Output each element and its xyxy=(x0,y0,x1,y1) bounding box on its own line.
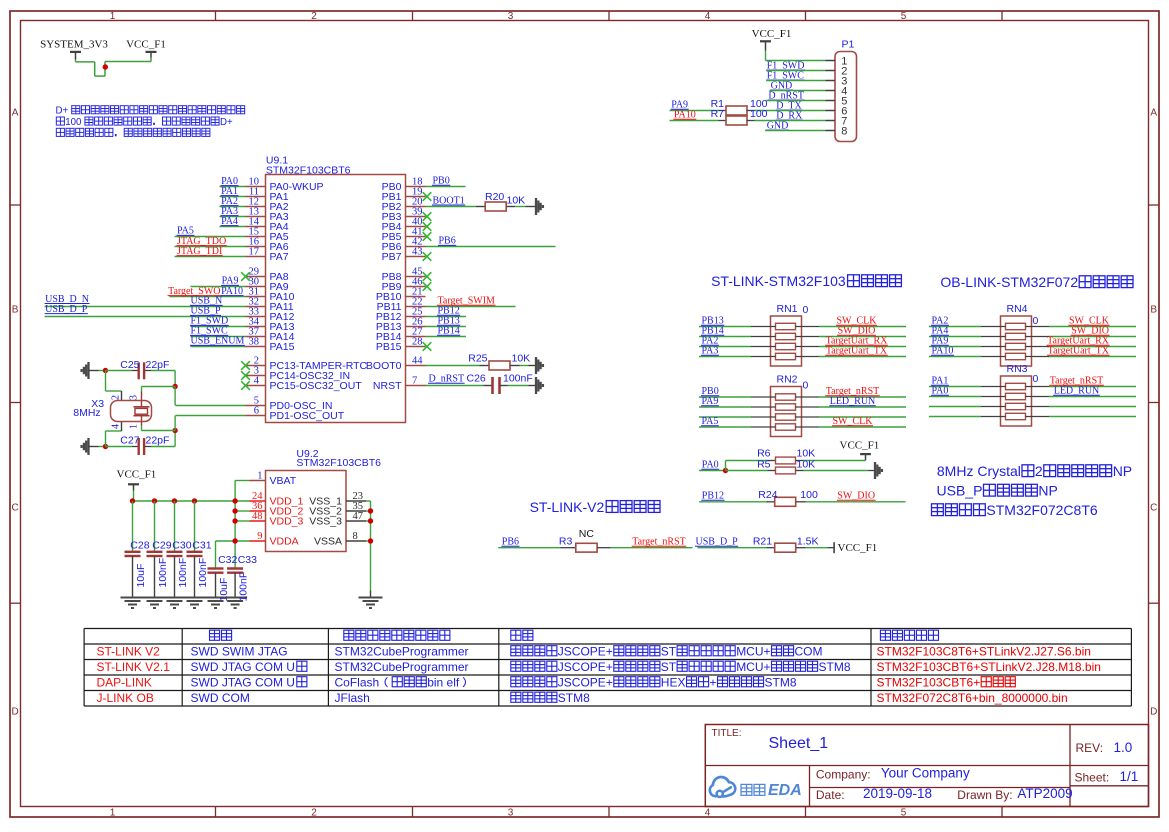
svg-text:7: 7 xyxy=(412,376,417,387)
svg-text:JFlash: JFlash xyxy=(335,691,370,705)
svg-text:C25: C25 xyxy=(120,359,139,371)
svg-text:0: 0 xyxy=(803,304,809,316)
svg-text:Your Company: Your Company xyxy=(881,766,970,781)
svg-text:+: + xyxy=(710,675,717,689)
svg-text:ST: ST xyxy=(661,660,677,674)
svg-text:3: 3 xyxy=(508,807,514,818)
svg-text:10K: 10K xyxy=(512,353,531,365)
svg-text:8: 8 xyxy=(841,126,847,138)
svg-text:4: 4 xyxy=(705,807,711,818)
svg-text:PC15-OSC32_OUT: PC15-OSC32_OUT xyxy=(270,380,363,392)
svg-text:C26: C26 xyxy=(467,373,486,385)
svg-text:C: C xyxy=(11,503,18,514)
svg-text:STM8: STM8 xyxy=(765,675,797,689)
svg-text:100nF: 100nF xyxy=(157,558,169,588)
svg-text:100: 100 xyxy=(750,108,768,120)
svg-text:100nF: 100nF xyxy=(238,572,250,602)
svg-text:1: 1 xyxy=(110,11,116,22)
svg-text:1.0: 1.0 xyxy=(1114,740,1133,755)
svg-text:3: 3 xyxy=(129,395,140,400)
svg-text:PB7: PB7 xyxy=(382,251,402,263)
svg-text:C29: C29 xyxy=(152,540,171,552)
svg-text:B: B xyxy=(12,305,19,316)
svg-text:C27: C27 xyxy=(120,435,139,447)
svg-text:8MHz Crystal: 8MHz Crystal xyxy=(937,463,1021,479)
svg-text:D+: D+ xyxy=(56,106,69,117)
svg-text:HEX: HEX xyxy=(661,675,686,689)
svg-text:STM32CubeProgrammer: STM32CubeProgrammer xyxy=(335,660,469,674)
svg-text:44: 44 xyxy=(412,356,423,367)
svg-text:STM32CubeProgrammer: STM32CubeProgrammer xyxy=(335,644,469,658)
svg-text:REV:: REV: xyxy=(1076,741,1104,755)
svg-text:D+: D+ xyxy=(220,117,233,128)
svg-text:R21: R21 xyxy=(753,536,772,548)
svg-text:NP: NP xyxy=(1113,463,1132,479)
svg-text:R25: R25 xyxy=(468,353,487,365)
svg-text:RN1: RN1 xyxy=(777,303,798,315)
svg-text:3: 3 xyxy=(508,11,514,22)
svg-text:JSCOPE+: JSCOPE+ xyxy=(558,675,613,689)
svg-text:38: 38 xyxy=(249,337,260,348)
svg-text:SWD JTAG COM U: SWD JTAG COM U xyxy=(191,675,295,689)
svg-text:10uF: 10uF xyxy=(135,564,147,588)
svg-text:0: 0 xyxy=(1033,373,1039,385)
svg-text:2: 2 xyxy=(311,807,317,818)
svg-text:NRST: NRST xyxy=(373,380,402,392)
svg-text:ST-LINK-V2: ST-LINK-V2 xyxy=(530,499,605,515)
svg-text:A: A xyxy=(12,108,19,119)
svg-text:ST-LINK-STM32F103: ST-LINK-STM32F103 xyxy=(711,273,846,289)
svg-text:C31: C31 xyxy=(192,540,211,552)
svg-text:1: 1 xyxy=(110,807,116,818)
svg-text:NP: NP xyxy=(1038,483,1057,499)
svg-text:MCU+: MCU+ xyxy=(736,644,770,658)
svg-text:100nF: 100nF xyxy=(177,558,189,588)
svg-text:STM32F103C8T6+STLinkV2.J27.S6.: STM32F103C8T6+STLinkV2.J27.S6.bin xyxy=(877,644,1091,658)
svg-text:VCC_F1: VCC_F1 xyxy=(117,468,157,480)
svg-text:A: A xyxy=(1150,108,1157,119)
svg-text:USB_P: USB_P xyxy=(937,483,983,499)
svg-text:B: B xyxy=(1150,305,1157,316)
svg-text:STM32F072C8T6: STM32F072C8T6 xyxy=(986,502,1097,518)
svg-text:EDA: EDA xyxy=(768,782,802,799)
svg-text:1: 1 xyxy=(129,424,140,429)
svg-text:SWD COM: SWD COM xyxy=(191,691,250,705)
svg-text:48: 48 xyxy=(252,511,263,522)
svg-text:2019-09-18: 2019-09-18 xyxy=(863,786,932,801)
svg-text:R20: R20 xyxy=(485,191,504,203)
svg-text:VCC_F1: VCC_F1 xyxy=(752,28,792,40)
svg-text:CoFlash: CoFlash xyxy=(335,675,380,689)
svg-text:ST: ST xyxy=(661,644,677,658)
svg-text:STM32F072C8T6+bin_8000000.bin: STM32F072C8T6+bin_8000000.bin xyxy=(877,691,1068,705)
svg-text:BOOT0: BOOT0 xyxy=(366,360,402,372)
svg-text:C32: C32 xyxy=(218,554,237,566)
svg-text:JSCOPE+: JSCOPE+ xyxy=(558,660,613,674)
svg-text:SWD SWIM JTAG: SWD SWIM JTAG xyxy=(191,644,288,658)
svg-text:COM: COM xyxy=(795,644,823,658)
svg-text:100: 100 xyxy=(800,489,818,501)
svg-text:100nF: 100nF xyxy=(503,373,533,385)
svg-text:C28: C28 xyxy=(130,540,149,552)
svg-text:VDDA: VDDA xyxy=(270,536,299,548)
svg-text:SWD JTAG COM U: SWD JTAG COM U xyxy=(191,660,295,674)
svg-text:Company:: Company: xyxy=(816,768,871,782)
svg-text:STM8: STM8 xyxy=(819,660,851,674)
svg-text:10K: 10K xyxy=(797,458,816,470)
svg-text:VSSA: VSSA xyxy=(314,536,342,548)
svg-text:P1: P1 xyxy=(842,39,855,51)
svg-text:1.5K: 1.5K xyxy=(797,536,819,548)
svg-text:JSCOPE+: JSCOPE+ xyxy=(558,644,613,658)
svg-text:D: D xyxy=(11,707,18,718)
svg-text:6: 6 xyxy=(254,406,259,417)
svg-text:VCC_F1: VCC_F1 xyxy=(838,542,878,554)
svg-text:Drawn By:: Drawn By: xyxy=(957,788,1012,802)
svg-text:28: 28 xyxy=(412,337,423,348)
svg-text:2: 2 xyxy=(1035,463,1043,479)
svg-text:R3: R3 xyxy=(559,536,573,548)
svg-text:VSS_3: VSS_3 xyxy=(309,516,342,528)
svg-text:RN2: RN2 xyxy=(777,373,798,385)
svg-text:5: 5 xyxy=(901,807,907,818)
svg-text:SYSTEM_3V3: SYSTEM_3V3 xyxy=(40,38,108,50)
svg-text:100: 100 xyxy=(65,117,82,128)
svg-text:RN3: RN3 xyxy=(1007,363,1028,375)
svg-text:0: 0 xyxy=(1033,315,1039,327)
svg-text:C33: C33 xyxy=(238,554,257,566)
svg-text:R5: R5 xyxy=(757,458,771,470)
svg-text:1/1: 1/1 xyxy=(1120,769,1139,784)
svg-text:0: 0 xyxy=(803,380,809,392)
svg-text:STM32F103CBT6+: STM32F103CBT6+ xyxy=(877,675,981,689)
svg-text:8: 8 xyxy=(353,531,358,542)
svg-text:TITLE:: TITLE: xyxy=(712,728,742,739)
svg-text:Sheet:: Sheet: xyxy=(1075,771,1110,785)
svg-text:C: C xyxy=(1150,503,1157,514)
svg-text:10K: 10K xyxy=(507,195,526,207)
svg-text:VDD_3: VDD_3 xyxy=(270,516,304,528)
svg-text:RN4: RN4 xyxy=(1007,303,1028,315)
svg-text:bin elf: bin elf xyxy=(427,675,460,689)
svg-text:ST-LINK V2.1: ST-LINK V2.1 xyxy=(97,660,171,674)
svg-text:PD1-OSC_OUT: PD1-OSC_OUT xyxy=(270,410,345,422)
svg-text:R7: R7 xyxy=(711,108,725,120)
svg-text:47: 47 xyxy=(353,511,364,522)
svg-text:VCC_F1: VCC_F1 xyxy=(126,38,166,50)
svg-text:STM32F103CBT6+STLinkV2.J28.M18: STM32F103CBT6+STLinkV2.J28.M18.bin xyxy=(877,660,1101,674)
svg-text:100nF: 100nF xyxy=(197,558,209,588)
svg-text:Sheet_1: Sheet_1 xyxy=(769,735,829,752)
svg-text:VCC_F1: VCC_F1 xyxy=(840,440,880,452)
svg-text:Date:: Date: xyxy=(816,788,845,802)
svg-text:4: 4 xyxy=(111,424,122,429)
svg-text:STM32F103CBT6: STM32F103CBT6 xyxy=(296,457,381,469)
svg-text:ST-LINK V2: ST-LINK V2 xyxy=(97,644,161,658)
svg-text:MCU+: MCU+ xyxy=(736,660,770,674)
svg-text:NC: NC xyxy=(579,528,595,540)
svg-text:22pF: 22pF xyxy=(146,435,170,447)
svg-text:43: 43 xyxy=(412,247,423,258)
svg-text:OB-LINK-STM32F072: OB-LINK-STM32F072 xyxy=(940,274,1078,290)
svg-text:D: D xyxy=(1150,707,1157,718)
svg-text:J-LINK OB: J-LINK OB xyxy=(97,691,154,705)
svg-text:PB15: PB15 xyxy=(376,341,402,353)
svg-text:9: 9 xyxy=(257,531,262,542)
svg-text:PA7: PA7 xyxy=(270,251,289,263)
svg-text:DAP-LINK: DAP-LINK xyxy=(97,675,152,689)
svg-text:ATP2009: ATP2009 xyxy=(1017,786,1072,801)
svg-text:2: 2 xyxy=(311,11,317,22)
svg-text:4: 4 xyxy=(705,11,711,22)
svg-text:17: 17 xyxy=(249,247,260,258)
svg-text:VBAT: VBAT xyxy=(270,475,297,487)
svg-text:1: 1 xyxy=(257,470,262,481)
svg-text:4: 4 xyxy=(254,376,260,387)
svg-text:STM8: STM8 xyxy=(558,691,590,705)
svg-text:PA15: PA15 xyxy=(270,341,295,353)
svg-text:2: 2 xyxy=(111,395,122,400)
svg-text:22pF: 22pF xyxy=(146,359,170,371)
svg-text:C30: C30 xyxy=(172,540,191,552)
svg-text:R24: R24 xyxy=(758,489,777,501)
svg-text:5: 5 xyxy=(901,11,907,22)
svg-text:8MHz: 8MHz xyxy=(73,407,100,419)
